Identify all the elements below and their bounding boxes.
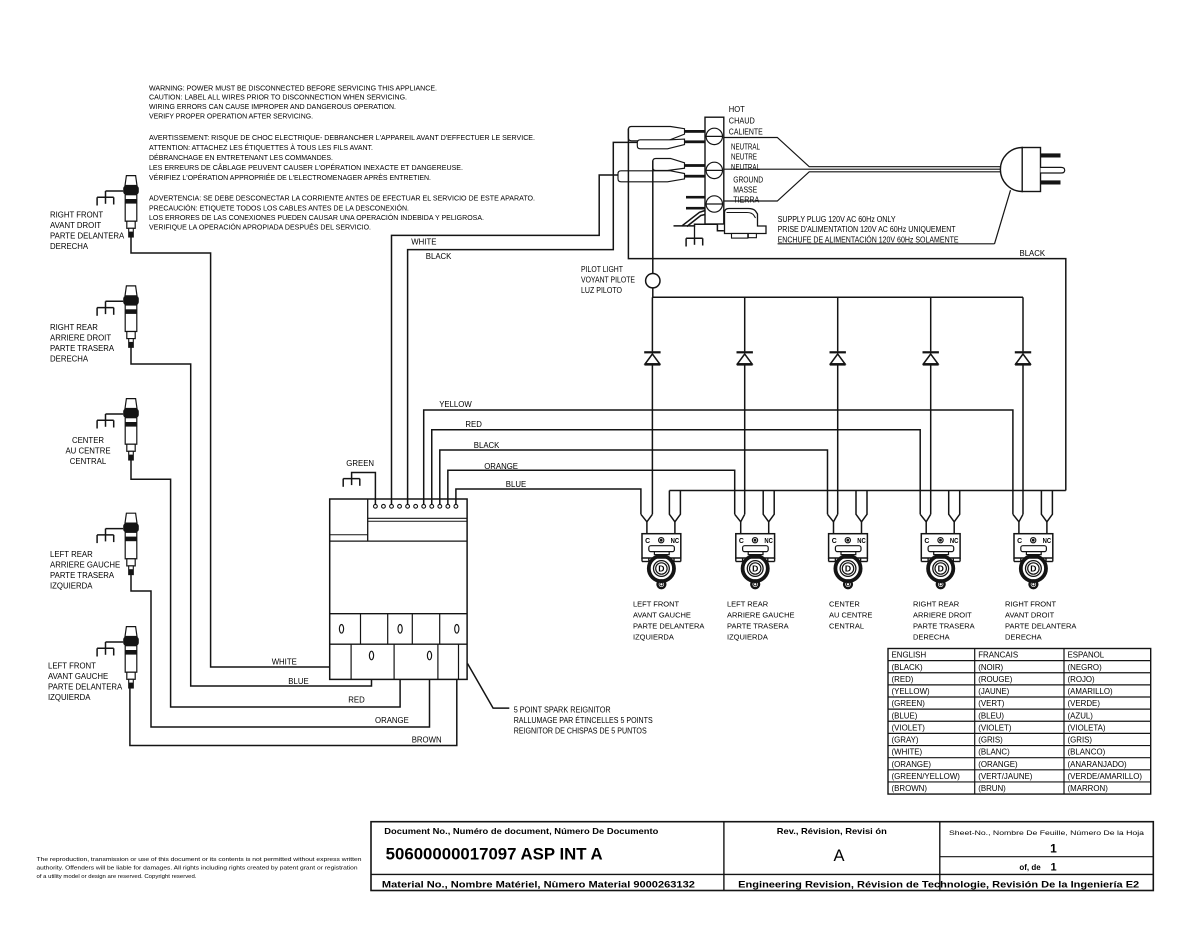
- crimp lug NEUTRAL lower: [618, 171, 706, 182]
- burner ground bracket for RIGHT FRONT: [97, 191, 123, 206]
- wire supply cord lower conductor: [724, 172, 1002, 201]
- switch C terminal funnel LEFT FRONT: [641, 514, 653, 533]
- wire diode to switch C funnel LEFT REAR: [744, 365, 746, 514]
- svg-text:of a utility model or design a: of a utility model or design are reserve…: [37, 874, 197, 880]
- svg-text:Engineering Revision, Révision: Engineering Revision, Révision de Techno…: [738, 880, 1139, 890]
- svg-text:LES ERREURS DE CÂBLAGE PEUVENT: LES ERREURS DE CÂBLAGE PEUVENT CAUSER L'…: [149, 163, 463, 172]
- burner ground bracket for LEFT FRONT: [97, 642, 123, 657]
- svg-text:IZQUIERDA: IZQUIERDA: [727, 632, 768, 641]
- svg-text:ESPANOL: ESPANOL: [1068, 651, 1105, 660]
- svg-text:CALIENTE: CALIENTE: [729, 127, 763, 136]
- label BLACK (module power): [426, 252, 452, 261]
- svg-text:IZQUIERDA: IZQUIERDA: [48, 693, 91, 702]
- svg-text:(AZUL): (AZUL): [1068, 711, 1094, 720]
- svg-text:LEFT REAR: LEFT REAR: [50, 550, 93, 559]
- svg-text:1: 1: [1050, 862, 1056, 874]
- svg-text:AU CENTRE: AU CENTRE: [65, 447, 110, 456]
- svg-text:(ORANGE): (ORANGE): [892, 760, 932, 769]
- label LEFT FRONT: [48, 662, 123, 703]
- svg-text:RIGHT REAR: RIGHT REAR: [50, 323, 98, 332]
- svg-text:PARTE TRASERA: PARTE TRASERA: [727, 621, 789, 630]
- label BLUE wire: [288, 677, 308, 686]
- underline of supply note third line: [778, 243, 995, 245]
- label YELLOW wire: [439, 400, 472, 409]
- label RED wire: [465, 420, 482, 429]
- svg-text:LOS ERRORES DE LAS CONEXIONES: LOS ERRORES DE LAS CONEXIONES PUEDEN CAU…: [149, 213, 484, 222]
- svg-text:5 POINT SPARK REIGNITOR: 5 POINT SPARK REIGNITOR: [514, 706, 611, 715]
- svg-text:Document No., Numéro de docume: Document No., Numéro de document, Número…: [384, 826, 658, 836]
- wire BLACK module pin5 to hot lug: [408, 142, 638, 504]
- chassis ground symbol under block: [686, 238, 703, 247]
- svg-text:ATTENTION: ATTACHEZ LES ÉTIQUE: ATTENTION: ATTACHEZ LES ÉTIQUETTES À TOU…: [149, 143, 373, 152]
- ignitor electrode RIGHT REAR: [123, 286, 139, 348]
- svg-text:Material No., Nombre Matériel,: Material No., Nombre Matériel, Nùmero Ma…: [382, 880, 695, 890]
- label RIGHT FRONT: [50, 211, 125, 252]
- svg-text:C: C: [832, 538, 837, 545]
- svg-text:CHAUD: CHAUD: [729, 116, 755, 125]
- svg-text:(GRIS): (GRIS): [978, 736, 1003, 745]
- note: supply plug rating: [778, 215, 959, 245]
- wire RIGHT REAR -> module BLUE post: [131, 347, 372, 686]
- switch C terminal funnel RIGHT FRONT: [1013, 514, 1023, 533]
- svg-text:BLACK: BLACK: [474, 441, 500, 450]
- terminal screw HOT: [706, 128, 724, 144]
- svg-text:AVANT GAUCHE: AVANT GAUCHE: [48, 672, 108, 681]
- valve switch LEFT FRONT: [642, 534, 681, 588]
- switch NC terminal funnel CENTER: [856, 491, 867, 534]
- svg-text:(ANARANJADO): (ANARANJADO): [1068, 760, 1128, 769]
- svg-text:ARRIERE GAUCHE: ARRIERE GAUCHE: [50, 561, 120, 570]
- svg-text:(ORANGE): (ORANGE): [978, 760, 1018, 769]
- svg-text:PRECAUCIÓN: ETIQUETE TODOS LOS: PRECAUCIÓN: ETIQUETE TODOS LOS CABLES AN…: [149, 203, 409, 212]
- svg-text:LUZ PILOTO: LUZ PILOTO: [581, 286, 622, 295]
- svg-text:D: D: [752, 564, 758, 574]
- svg-text:(AMARILLO): (AMARILLO): [1068, 687, 1114, 696]
- svg-text:DERECHA: DERECHA: [50, 355, 89, 364]
- svg-text:LEFT FRONT: LEFT FRONT: [48, 662, 96, 671]
- svg-text:DERECHA: DERECHA: [913, 632, 950, 641]
- svg-text:NC: NC: [857, 538, 866, 545]
- svg-text:MASSE: MASSE: [733, 186, 757, 195]
- svg-text:AVANT DROIT: AVANT DROIT: [50, 221, 101, 230]
- note: 5 point spark reignitor: [514, 706, 653, 736]
- svg-text:RED: RED: [348, 696, 365, 705]
- svg-text:LEFT REAR: LEFT REAR: [727, 599, 769, 608]
- svg-text:(VERDE/AMARILLO): (VERDE/AMARILLO): [1068, 772, 1143, 781]
- svg-text:RIGHT FRONT: RIGHT FRONT: [1005, 599, 1057, 608]
- wire diode to switch C funnel CENTER: [837, 365, 839, 514]
- svg-text:AVANT DROIT: AVANT DROIT: [1005, 610, 1055, 619]
- label GREEN: [346, 459, 374, 468]
- svg-text:ADVERTENCIA: SE DEBE DESCONECT: ADVERTENCIA: SE DEBE DESCONECTAR LA CORR…: [149, 194, 535, 203]
- svg-text:VERIFY PROPER OPERATION AFTER: VERIFY PROPER OPERATION AFTER SERVICING.: [149, 112, 313, 121]
- svg-text:(VERT): (VERT): [978, 699, 1005, 708]
- svg-text:A: A: [833, 847, 844, 865]
- svg-text:of, de: of, de: [1019, 863, 1041, 872]
- wire diode branch RIGHT REAR: [930, 297, 932, 351]
- svg-text:(BLUE): (BLUE): [892, 711, 918, 720]
- chassis ground symbol (green wire): [343, 478, 360, 487]
- svg-text:AU CENTRE: AU CENTRE: [829, 610, 872, 619]
- valve switch CENTER: [829, 534, 868, 588]
- svg-text:CENTRAL: CENTRAL: [829, 621, 864, 630]
- spark module HV output posts: [339, 625, 459, 660]
- wire BLACK module to switch: [440, 450, 828, 514]
- title block material number: [382, 880, 695, 890]
- svg-text:CENTER: CENTER: [72, 436, 104, 445]
- svg-text:NEUTRAL: NEUTRAL: [731, 163, 760, 172]
- svg-text:ARRIERE DROIT: ARRIERE DROIT: [50, 334, 111, 343]
- crimp lug HOT lower: [637, 139, 705, 149]
- svg-text:(BLACK): (BLACK): [892, 663, 924, 672]
- svg-text:RED: RED: [465, 420, 482, 429]
- wire BLACK hot bus to switches: [628, 129, 1065, 491]
- svg-text:(VIOLET): (VIOLET): [892, 723, 926, 732]
- title block: [371, 822, 1153, 891]
- valve switch RIGHT FRONT: [1014, 534, 1053, 588]
- diode D2 (LEFT REAR): [737, 351, 753, 365]
- svg-text:(NEGRO): (NEGRO): [1068, 663, 1103, 672]
- svg-text:PARTE TRASERA: PARTE TRASERA: [50, 344, 115, 353]
- label CENTER: [65, 436, 110, 466]
- svg-text:D: D: [1030, 564, 1036, 574]
- valve switch LEFT REAR: [736, 534, 775, 588]
- svg-text:LEFT FRONT: LEFT FRONT: [633, 599, 680, 608]
- wire white post stub: [341, 633, 343, 667]
- switch NC terminal funnel LEFT FRONT: [669, 491, 680, 534]
- svg-text:NC: NC: [950, 538, 959, 545]
- svg-text:ENCHUFE DE ALIMENTACIÓN 120V 6: ENCHUFE DE ALIMENTACIÓN 120V 60Hz SOLAME…: [778, 235, 959, 244]
- svg-text:CENTER: CENTER: [829, 599, 860, 608]
- wire LEFT REAR -> module ORANGE post: [131, 575, 430, 727]
- svg-text:PARTE DELANTERA: PARTE DELANTERA: [50, 232, 125, 241]
- label switch RIGHT FRONT: [1005, 599, 1076, 641]
- label WHITE wire: [272, 658, 297, 667]
- svg-text:SUPPLY PLUG 120V AC 60Hz ONLY: SUPPLY PLUG 120V AC 60Hz ONLY: [778, 215, 897, 224]
- note: French warning text: [149, 133, 535, 182]
- wire diode to switch C funnel LEFT FRONT: [651, 365, 653, 514]
- label LEFT REAR: [50, 550, 120, 591]
- label BLUE wire: [506, 480, 526, 489]
- svg-text:PILOT LIGHT: PILOT LIGHT: [581, 265, 623, 274]
- svg-text:REIGNITOR DE CHISPAS DE 5 PUNT: REIGNITOR DE CHISPAS DE 5 PUNTOS: [514, 726, 647, 735]
- crimp lug HOT upper: [628, 127, 705, 141]
- svg-text:IZQUIERDA: IZQUIERDA: [50, 582, 93, 591]
- wire RED module to switch: [432, 430, 920, 515]
- wire BLUE module to switch: [456, 489, 641, 514]
- svg-text:NEUTRAL: NEUTRAL: [731, 142, 760, 151]
- switch C terminal funnel LEFT REAR: [735, 514, 745, 533]
- wire diode branch LEFT REAR: [744, 297, 746, 351]
- wire NC bus (black) across switches: [669, 490, 1065, 492]
- label ORANGE wire: [484, 462, 518, 471]
- wire GREEN module pin1 to chassis ground: [352, 473, 376, 505]
- svg-text:ORANGE: ORANGE: [375, 716, 409, 725]
- label RIGHT REAR: [50, 323, 115, 364]
- wire RIGHT FRONT -> module WHITE post: [131, 237, 342, 667]
- wire diode branch LEFT FRONT: [651, 297, 653, 351]
- title block document number: [384, 826, 658, 863]
- svg-text:PARTE DELANTERA: PARTE DELANTERA: [1005, 621, 1076, 630]
- svg-text:PARTE DELANTERA: PARTE DELANTERA: [633, 621, 704, 630]
- wire diode to switch C funnel RIGHT REAR: [930, 365, 932, 514]
- svg-text:(ROJO): (ROJO): [1068, 675, 1096, 684]
- label BLACK (hot bus): [1020, 249, 1046, 258]
- svg-text:NC: NC: [764, 538, 773, 545]
- label WHITE (module power): [411, 238, 436, 247]
- svg-text:50600000017097 ASP INT A: 50600000017097 ASP INT A: [386, 845, 603, 863]
- svg-text:C: C: [739, 538, 744, 545]
- svg-text:RALLUMAGE PAR ÉTINCELLES 5 POI: RALLUMAGE PAR ÉTINCELLES 5 POINTS: [514, 716, 653, 725]
- svg-text:(BLANCO): (BLANCO): [1068, 748, 1106, 757]
- svg-text:DÉBRANCHAGE EN ENTRETENANT LES: DÉBRANCHAGE EN ENTRETENANT LES COMMANDES…: [149, 153, 333, 162]
- svg-text:(WHITE): (WHITE): [892, 748, 923, 757]
- wire color translation table: [888, 649, 1151, 795]
- svg-text:(BLANC): (BLANC): [978, 748, 1010, 757]
- svg-text:GREEN: GREEN: [346, 459, 374, 468]
- svg-text:C: C: [1017, 538, 1022, 545]
- svg-text:(GREEN/YELLOW): (GREEN/YELLOW): [892, 772, 961, 781]
- svg-text:TIERRA: TIERRA: [733, 196, 760, 205]
- svg-text:(VIOLETA): (VIOLETA): [1068, 723, 1106, 732]
- svg-text:WARNING: POWER MUST BE DISCONN: WARNING: POWER MUST BE DISCONNECTED BEFO…: [149, 83, 437, 92]
- svg-text:1: 1: [1050, 842, 1057, 856]
- svg-text:RIGHT REAR: RIGHT REAR: [913, 599, 960, 608]
- wire ORANGE module to switch: [448, 470, 735, 514]
- svg-text:BLACK: BLACK: [1020, 249, 1046, 258]
- svg-text:(GRAY): (GRAY): [892, 736, 919, 745]
- svg-text:BROWN: BROWN: [412, 736, 442, 745]
- ignitor electrode LEFT FRONT: [123, 627, 139, 689]
- note: English warning text: [149, 83, 437, 120]
- label GROUND: [733, 175, 763, 204]
- wire NEUTRAL lug to pilot light: [652, 161, 654, 274]
- svg-text:WHITE: WHITE: [272, 658, 297, 667]
- title block revision: [777, 826, 887, 865]
- svg-text:BLUE: BLUE: [288, 677, 308, 686]
- label PILOT LIGHT: [581, 265, 635, 295]
- label RED wire: [348, 696, 365, 705]
- diode D1 (LEFT FRONT): [644, 351, 660, 365]
- wire pilot light to diode bus: [653, 288, 1023, 297]
- wire diode to switch C funnel RIGHT FRONT: [1022, 365, 1024, 514]
- svg-text:BLACK: BLACK: [426, 252, 452, 261]
- svg-text:D: D: [658, 564, 664, 574]
- spark module input terminals (11 pins): [374, 504, 458, 508]
- wire CENTER -> module RED post: [131, 460, 400, 707]
- cord strain relief bracket: [725, 209, 767, 239]
- crimp lug NEUTRAL upper: [653, 159, 706, 171]
- note: copyright small print: [37, 857, 362, 880]
- label NEUTRAL: [731, 142, 760, 172]
- burner ground bracket for CENTER: [97, 414, 123, 429]
- svg-text:(ROUGE): (ROUGE): [978, 675, 1013, 684]
- switch C terminal funnel RIGHT REAR: [920, 514, 931, 533]
- terminal screw GROUND: [706, 196, 724, 212]
- ignitor electrode LEFT REAR: [123, 513, 139, 575]
- wire diode branch RIGHT FRONT: [1022, 297, 1024, 351]
- ground terminal conductor dashes: [686, 196, 706, 210]
- svg-text:Rev., Révision, Revisi ón: Rev., Révision, Revisi ón: [777, 826, 887, 836]
- wire WHITE module pin3 to neutral lug: [392, 175, 619, 504]
- svg-text:PARTE DELANTERA: PARTE DELANTERA: [48, 683, 123, 692]
- svg-text:(BROWN): (BROWN): [892, 784, 928, 793]
- label switch RIGHT REAR: [913, 599, 975, 641]
- svg-text:ARRIERE GAUCHE: ARRIERE GAUCHE: [727, 610, 795, 619]
- svg-text:(GREEN): (GREEN): [892, 699, 926, 708]
- burner ground bracket for RIGHT REAR: [97, 301, 123, 316]
- wire LEFT FRONT -> module BROWN post: [130, 633, 457, 745]
- terminal block mounting bracket: [674, 211, 724, 231]
- svg-text:D: D: [845, 564, 851, 574]
- label switch LEFT FRONT: [633, 599, 704, 641]
- wire supply cord upper conductor: [724, 138, 1002, 167]
- svg-text:DERECHA: DERECHA: [50, 242, 89, 251]
- svg-text:YELLOW: YELLOW: [439, 400, 472, 409]
- svg-text:(BLEU): (BLEU): [978, 711, 1004, 720]
- svg-text:NC: NC: [1043, 538, 1052, 545]
- svg-text:HOT: HOT: [729, 105, 745, 114]
- svg-text:PARTE TRASERA: PARTE TRASERA: [50, 571, 115, 580]
- ignitor electrode RIGHT FRONT: [123, 176, 139, 238]
- svg-text:FRANCAIS: FRANCAIS: [978, 651, 1018, 660]
- svg-text:AVERTISSEMENT: RISQUE DE CHOC: AVERTISSEMENT: RISQUE DE CHOC ELECTRIQUE…: [149, 133, 535, 142]
- svg-text:(VERT/JAUNE): (VERT/JAUNE): [978, 772, 1033, 781]
- switch NC terminal funnel RIGHT FRONT: [1041, 491, 1052, 534]
- svg-text:(VIOLET): (VIOLET): [978, 723, 1012, 732]
- wire YELLOW module to switch: [424, 410, 1013, 514]
- valve switch RIGHT REAR: [921, 534, 960, 588]
- spark module 5-point reignitor: [330, 499, 467, 679]
- svg-text:ARRIERE DROIT: ARRIERE DROIT: [913, 610, 972, 619]
- diode D4 (RIGHT REAR): [923, 351, 939, 365]
- svg-text:IZQUIERDA: IZQUIERDA: [633, 632, 674, 641]
- svg-text:AVANT GAUCHE: AVANT GAUCHE: [633, 610, 691, 619]
- svg-text:(BRUN): (BRUN): [978, 784, 1006, 793]
- switch NC terminal funnel RIGHT REAR: [949, 491, 960, 534]
- label BLACK wire: [474, 441, 500, 450]
- svg-text:(YELLOW): (YELLOW): [892, 687, 931, 696]
- svg-text:Sheet-No., Nombre De Feuille,: Sheet-No., Nombre De Feuille, Número De …: [949, 830, 1144, 837]
- label switch CENTER: [829, 599, 872, 630]
- svg-text:(VERDE): (VERDE): [1068, 699, 1101, 708]
- label ORANGE wire: [375, 716, 409, 725]
- note: Spanish warning text: [149, 194, 535, 232]
- supply plug: [1000, 148, 1064, 192]
- label switch LEFT REAR: [727, 599, 795, 641]
- ignitor electrode CENTER: [123, 399, 139, 461]
- leader line to spark module note: [468, 664, 510, 709]
- svg-text:(MARRON): (MARRON): [1068, 784, 1109, 793]
- diode D5 (RIGHT FRONT): [1015, 351, 1031, 365]
- svg-text:(JAUNE): (JAUNE): [978, 687, 1009, 696]
- title block engineering revision: [738, 880, 1139, 890]
- svg-text:CAUTION: LABEL ALL WIRES PRIOR: CAUTION: LABEL ALL WIRES PRIOR TO DISCON…: [149, 93, 407, 102]
- wire diode branch CENTER: [837, 297, 839, 351]
- svg-text:NEUTRE: NEUTRE: [731, 153, 757, 162]
- svg-text:(RED): (RED): [892, 675, 914, 684]
- terminal screw NEUTRAL: [706, 162, 724, 178]
- svg-text:VOYANT PILOTE: VOYANT PILOTE: [581, 275, 635, 284]
- svg-text:RIGHT FRONT: RIGHT FRONT: [50, 211, 103, 220]
- chassis ground stem under block: [694, 226, 696, 238]
- switch C terminal funnel CENTER: [828, 514, 838, 533]
- svg-text:NC: NC: [671, 538, 680, 545]
- svg-text:D: D: [938, 564, 944, 574]
- supply terminal block: [705, 117, 724, 224]
- svg-text:ORANGE: ORANGE: [484, 462, 518, 471]
- diode D3 (CENTER): [830, 351, 846, 365]
- svg-text:(NOIR): (NOIR): [978, 663, 1003, 672]
- wire supply cord middle conductor: [724, 168, 1003, 170]
- svg-text:authority. Offenders will be l: authority. Offenders will be liable for …: [37, 865, 358, 871]
- svg-text:C: C: [645, 538, 650, 545]
- svg-text:ENGLISH: ENGLISH: [892, 651, 927, 660]
- svg-text:C: C: [924, 538, 929, 545]
- leader line plug to supply note: [995, 190, 1011, 244]
- title block sheet number: [949, 830, 1144, 874]
- svg-text:GROUND: GROUND: [733, 175, 763, 184]
- burner ground bracket for LEFT REAR: [97, 529, 123, 544]
- svg-text:PARTE TRASERA: PARTE TRASERA: [913, 621, 975, 630]
- svg-text:WIRING ERRORS CAN CAUSE IMPROP: WIRING ERRORS CAN CAUSE IMPROPER AND DAN…: [149, 102, 396, 111]
- svg-text:PRISE D'ALIMENTATION 120V AC 6: PRISE D'ALIMENTATION 120V AC 60Hz UNIQUE…: [778, 225, 956, 234]
- label HOT: [729, 105, 763, 136]
- svg-text:The reproduction, transmission: The reproduction, transmission or use of…: [37, 857, 362, 863]
- svg-text:VÉRIFIEZ L'OPÉRATION APPROPRIÉ: VÉRIFIEZ L'OPÉRATION APPROPRIÉE DE L'ELE…: [149, 173, 431, 182]
- svg-text:CENTRAL: CENTRAL: [70, 457, 107, 466]
- pilot light: [646, 274, 660, 288]
- switch NC terminal funnel LEFT REAR: [763, 491, 774, 534]
- svg-text:(GRIS): (GRIS): [1068, 736, 1093, 745]
- svg-text:BLUE: BLUE: [506, 480, 526, 489]
- svg-text:DERECHA: DERECHA: [1005, 632, 1042, 641]
- svg-text:WHITE: WHITE: [411, 238, 436, 247]
- label BROWN wire: [412, 736, 442, 745]
- svg-text:VERIFIQUE LA OPERACIÓN APROPIA: VERIFIQUE LA OPERACIÓN APROPIADA DESPUÉS…: [149, 223, 371, 232]
